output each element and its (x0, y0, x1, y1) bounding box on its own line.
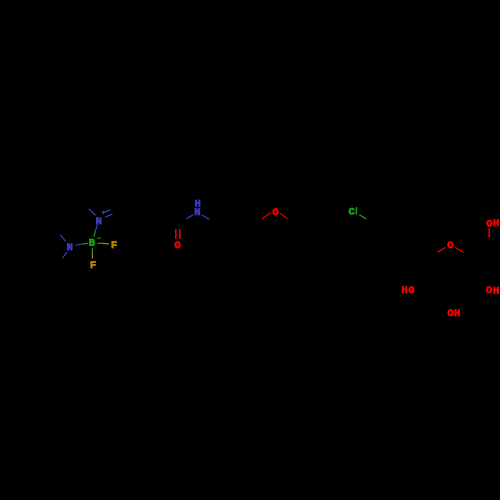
svg-text:H: H (493, 218, 499, 230)
svg-text:B: B (89, 238, 96, 250)
svg-text:H: H (454, 308, 460, 320)
wire: bond B1 to F1 (orange half) (103, 243, 109, 245)
svg-text:N: N (194, 207, 200, 219)
svg-text:F: F (90, 260, 96, 272)
svg-text:F: F (111, 240, 117, 252)
wire: bond O4 to CH2 (red half, vertical) (488, 228, 490, 237)
wire: bond B1 to F1 (green half) (97, 242, 103, 244)
svg-text:O: O (486, 285, 492, 297)
svg-text:O: O (447, 308, 453, 320)
svg-text:O: O (174, 240, 180, 252)
svg-text:N: N (67, 242, 73, 254)
charge minus on B1 (97, 237, 100, 239)
wire: bond O3 right (red half) (455, 247, 463, 252)
wire: bond B1 to F2 (orange half) (91, 253, 93, 258)
wire: bond N3 to CH2 (blue half) (202, 215, 210, 220)
wire: C=O double bond left line (red half) (175, 229, 177, 239)
wire: bond Cl1 to ring C (green half) (359, 215, 366, 219)
wire: bond N1+ to B1 (blue half) (95, 224, 97, 231)
wire: bond N1+ to C (up-left half) (89, 209, 96, 216)
wire: double bond N1+=C lower line (105, 214, 112, 217)
wire: bond B1 to F2 (green half) (91, 248, 93, 253)
charge plus on N1 (102, 211, 106, 215)
wire: bond N1+ to B1 (green half) (94, 231, 95, 237)
svg-text:O: O (272, 207, 278, 219)
wire: bond N2 to C (down-left half) (62, 252, 67, 258)
wire: bond N2 to C (up-left half) (60, 235, 65, 242)
svg-text:O: O (408, 285, 414, 297)
wire: bond O2 left (red half) (262, 213, 271, 219)
wire: bond O3 left (red half) (438, 247, 446, 252)
svg-text:O: O (447, 240, 453, 252)
wire: bond O2 right (red half) (280, 213, 287, 219)
svg-text:H: H (401, 285, 407, 297)
wire: C=O double bond right line (red half) (179, 229, 181, 239)
wire: double bond N1+=C upper line (104, 210, 110, 213)
wire: bond N3 to C=O carbon (blue half) (186, 215, 193, 219)
wire: bond B1 to N2 (green half) (81, 242, 88, 245)
svg-text:N: N (96, 216, 102, 228)
wire: bond B1 to N2 (blue half) (75, 244, 81, 245)
svg-text:H: H (493, 285, 499, 297)
svg-text:C: C (348, 207, 355, 219)
